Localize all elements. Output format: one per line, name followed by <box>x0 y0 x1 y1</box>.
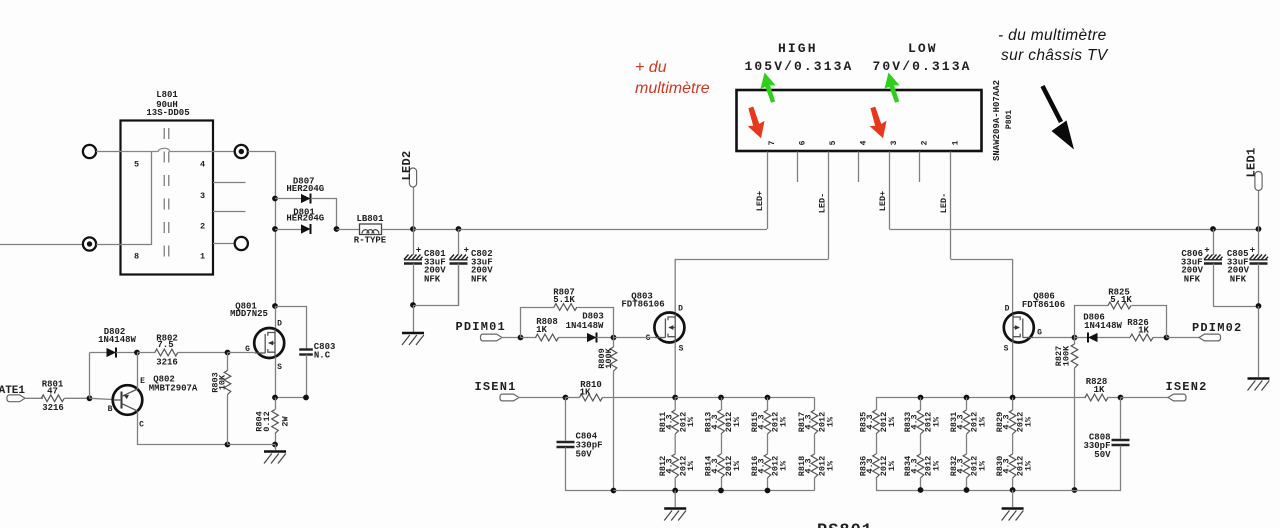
svg-text:1%: 1% <box>931 416 941 427</box>
node R803 bottom <box>225 442 231 448</box>
wire C808 branch <box>1120 398 1122 439</box>
ground right bank <box>1002 509 1024 521</box>
wire R811 column top <box>674 398 676 411</box>
node ISEN2/C808 <box>1118 395 1124 401</box>
svg-text:70V/0.313A: 70V/0.313A <box>873 59 972 74</box>
svg-text:47: 47 <box>47 387 58 397</box>
svg-text:NFK: NFK <box>1230 275 1247 285</box>
wire C803 bottom to source node <box>276 355 307 398</box>
wire PDIM01 to node <box>502 337 521 339</box>
wire D802 cathode to emitter node <box>116 352 137 354</box>
svg-text:+: + <box>464 246 469 256</box>
wire ground stub <box>275 445 277 451</box>
svg-text:G: G <box>1037 329 1042 338</box>
pin 4 stub <box>858 152 860 183</box>
wire pin1 corner to Q806 drain <box>951 260 1013 314</box>
resistor R835 <box>873 410 880 434</box>
svg-text:PS801: PS801 <box>817 522 873 528</box>
node LED2/C801 <box>410 226 416 232</box>
wire C801 bottom to C802 bottom <box>414 264 459 306</box>
wire R811-R812 mid <box>674 434 676 454</box>
svg-text:1K: 1K <box>580 388 591 398</box>
wire R814 column bottom <box>721 478 723 491</box>
node Q801 drain / C803 <box>272 303 278 309</box>
svg-text:4.3: 4.3 <box>1002 414 1012 429</box>
wire D807 anode <box>275 198 301 200</box>
wire Q802 collector down and right <box>138 412 228 445</box>
R825 loop wire left <box>1075 306 1109 338</box>
svg-text:FDT86106: FDT86106 <box>621 300 664 310</box>
resistor R802 <box>155 349 178 356</box>
svg-text:C: C <box>139 421 144 430</box>
svg-text:4.3: 4.3 <box>757 414 767 429</box>
resistor R825 <box>1108 302 1131 309</box>
svg-text:1K: 1K <box>536 325 547 335</box>
resistor R829 <box>1009 410 1016 434</box>
pin 3 stub <box>889 152 891 230</box>
wire R832 column bottom <box>966 478 968 490</box>
svg-text:3: 3 <box>200 191 205 201</box>
svg-text:B: B <box>108 405 113 414</box>
svg-text:NFK: NFK <box>1184 275 1201 285</box>
wire pin8 terminal to box <box>96 244 120 246</box>
svg-text:G: G <box>646 334 651 343</box>
wire node to R810 <box>566 397 580 399</box>
svg-text:LB801: LB801 <box>356 214 384 224</box>
node C805 bottom <box>1256 303 1262 309</box>
node R809 bottom <box>611 488 617 494</box>
resistor R830 <box>1009 454 1016 478</box>
R825 loop wire right <box>1132 306 1167 338</box>
resistor R836 <box>873 454 880 478</box>
pin2 stub <box>213 211 246 213</box>
svg-text:multimètre: multimètre <box>635 80 710 97</box>
wire R830 column bottom <box>1012 478 1014 490</box>
capacitor C804 <box>557 441 575 443</box>
ground under C801 <box>402 333 424 345</box>
svg-text:ISEN2: ISEN2 <box>1166 380 1208 394</box>
svg-text:4.3: 4.3 <box>664 414 674 429</box>
wire LB801 to LED2 node <box>382 229 414 231</box>
resistor R804 <box>272 410 279 434</box>
wire ISEN1 to C804 node <box>519 397 566 399</box>
wire emitter node to R802 <box>137 352 156 354</box>
node PDIM02/R825 <box>1164 335 1170 341</box>
node R801/base/D802 <box>87 395 93 401</box>
wire LED1 column to ground <box>1258 306 1260 377</box>
node R804 bottom <box>272 442 278 448</box>
wire C802 top to pin7 corner <box>459 229 768 231</box>
svg-text:100K: 100K <box>1061 345 1071 366</box>
svg-text:5.1K: 5.1K <box>553 295 575 305</box>
svg-text:MDD7N25: MDD7N25 <box>230 309 268 319</box>
svg-text:LED+: LED+ <box>755 191 765 211</box>
svg-text:1N4148W: 1N4148W <box>566 321 604 331</box>
transformer core dashed lines <box>163 128 165 268</box>
svg-text:0.12: 0.12 <box>262 411 272 431</box>
wire R833 column top <box>920 398 922 411</box>
svg-text:1%: 1% <box>732 416 742 427</box>
svg-text:3216: 3216 <box>156 358 178 368</box>
svg-text:5: 5 <box>134 160 139 170</box>
svg-text:P801: P801 <box>1005 110 1014 129</box>
resistor R810 <box>580 394 603 401</box>
svg-text:+: + <box>416 246 421 256</box>
svg-text:LED-: LED- <box>818 193 828 213</box>
connector PDIM02 pill (pointing left) <box>1199 334 1221 341</box>
svg-text:1K: 1K <box>1138 326 1149 336</box>
node C803 bottom <box>303 395 309 401</box>
wire ground stub left bank <box>674 491 676 508</box>
node bottom rail Q803 source column <box>672 488 678 494</box>
diode D807 <box>301 194 311 203</box>
green arrow HIGH <box>757 71 779 105</box>
svg-text:4.3: 4.3 <box>910 414 920 429</box>
terminal pin4 (filled) <box>235 145 248 158</box>
wire R836 column bottom <box>876 478 878 490</box>
svg-text:1%: 1% <box>887 416 897 427</box>
wire left edge to pin8 terminal <box>0 244 83 246</box>
svg-text:1%: 1% <box>686 416 696 427</box>
svg-text:3216: 3216 <box>42 403 64 413</box>
wire C804 bottom to bottom rail <box>566 448 614 491</box>
connector PDIM01 pill <box>481 334 503 341</box>
node R827 bottom <box>1072 487 1078 493</box>
resistor R832 <box>963 454 970 478</box>
node D803/R807/R809/gate <box>611 335 617 341</box>
wire R810 to source node <box>603 397 676 399</box>
resistor R812 <box>672 454 679 478</box>
terminal pin5 (open) <box>83 145 96 158</box>
svg-text:LED+: LED+ <box>878 191 888 211</box>
wire R809 to bottom rail <box>613 371 615 491</box>
R807 loop wire right <box>578 308 614 338</box>
svg-text:6: 6 <box>798 140 807 145</box>
connector ISEN1 pill <box>500 394 519 401</box>
wire R828 to ISEN2 node <box>1108 397 1121 399</box>
svg-text:3: 3 <box>890 140 899 145</box>
node D806/R825/R827/gate <box>1072 335 1078 341</box>
svg-text:4.3: 4.3 <box>804 414 814 429</box>
wire C803 branch top <box>276 307 307 349</box>
svg-text:+ du: + du <box>635 59 667 76</box>
svg-text:MMBT2907A: MMBT2907A <box>149 384 198 394</box>
pin 2 stub <box>919 152 921 183</box>
wire Q801 source down <box>275 357 277 398</box>
wire R831-R832 mid <box>966 434 968 454</box>
node top rail R831 <box>964 395 970 401</box>
svg-text:1%: 1% <box>825 460 835 471</box>
transformer winding wire pin5-pin4 <box>121 148 214 151</box>
diode D801 <box>301 224 311 233</box>
svg-text:4.3: 4.3 <box>710 458 720 473</box>
wire pin5 corner to Q803 drain <box>675 260 828 314</box>
wire C806 bottom to C805 column <box>1213 306 1259 308</box>
node bottom rail R832 <box>964 487 970 493</box>
ground under LED1 column <box>1248 379 1270 391</box>
connector LED2 pill <box>409 168 416 187</box>
capacitor C806 <box>1213 229 1215 255</box>
resistor R817 <box>811 410 818 434</box>
svg-text:1N4148W: 1N4148W <box>98 335 136 345</box>
svg-text:2: 2 <box>200 222 205 232</box>
wire R804 to ground node <box>275 434 277 445</box>
connector P801 box <box>737 90 982 151</box>
svg-text:- du multimètre: - du multimètre <box>998 27 1107 44</box>
wire R808 to D803 <box>559 337 588 339</box>
transformer winding wire pin8 riser <box>121 152 152 245</box>
svg-text:5: 5 <box>829 140 838 145</box>
ground left bank <box>664 509 686 521</box>
node Q803 source/sense <box>672 395 678 401</box>
node D807 anode <box>272 196 278 202</box>
wire C801 bottom to ground <box>413 305 415 332</box>
svg-text:1%: 1% <box>977 416 987 427</box>
capacitor C805 <box>1258 229 1260 255</box>
wire ground stub right bank <box>1012 490 1014 507</box>
wire R803 to collector wire <box>227 395 229 445</box>
capacitor C802 <box>458 229 460 255</box>
svg-text:4.3: 4.3 <box>865 458 875 473</box>
pin 1 stub <box>950 152 952 260</box>
wire drain node to Q801 <box>275 306 277 330</box>
resistor R816 <box>764 454 771 478</box>
resistor R815 <box>764 410 771 434</box>
wire gate node to Q801 gate <box>228 352 255 354</box>
wire R813-R814 mid <box>721 434 723 454</box>
resistor R834 <box>917 454 924 478</box>
wire LED1 pill to rail <box>1258 191 1260 230</box>
wire Q802 emitter up to node <box>137 353 139 390</box>
wire top rail left bank <box>675 397 814 399</box>
node top rail R813 <box>718 395 724 401</box>
wire R812 column bottom <box>674 478 676 491</box>
node bottom rail R834 <box>918 487 924 493</box>
wire R827 to bottom rail <box>1074 368 1076 490</box>
resistor R826 <box>1130 334 1153 341</box>
node R802/R803/gate <box>225 350 231 356</box>
svg-text:4.3: 4.3 <box>865 414 875 429</box>
wire R815-R816 mid <box>767 434 769 454</box>
svg-text:4.3: 4.3 <box>710 414 720 429</box>
resistor R814 <box>718 454 725 478</box>
svg-text:2W: 2W <box>280 416 290 427</box>
wire Q803 source down to sense node <box>674 342 676 398</box>
wire R833-R834 mid <box>920 434 922 454</box>
svg-text:1%: 1% <box>778 460 788 471</box>
svg-text:4: 4 <box>859 140 868 145</box>
svg-text:R-TYPE: R-TYPE <box>354 236 387 246</box>
resistor R828 <box>1085 394 1108 401</box>
node D802/emitter <box>134 350 140 356</box>
node C801 bottom <box>410 302 416 308</box>
node C802 top <box>456 226 462 232</box>
node C805/LED1 top <box>1256 226 1262 232</box>
wire base node to Q802 <box>90 398 113 399</box>
svg-text:PDIM02: PDIM02 <box>1192 321 1242 335</box>
wire R817 column top <box>814 398 816 411</box>
resistor R808 <box>536 334 559 341</box>
svg-text:4: 4 <box>200 160 205 170</box>
resistor R818 <box>811 454 818 478</box>
svg-text:8: 8 <box>134 252 139 262</box>
wire R801 to base node <box>64 397 89 399</box>
wire C808 bottom to bottom rail <box>1075 446 1121 491</box>
wire C804 branch <box>565 398 567 441</box>
node bottom rail R816 <box>765 488 771 494</box>
wire R803 branch <box>227 353 229 371</box>
wire gate node down to R809 <box>613 338 615 348</box>
svg-text:D803: D803 <box>582 312 604 322</box>
pin3 stub <box>213 182 246 184</box>
svg-text:LOW: LOW <box>908 41 938 56</box>
wire node to R808 <box>521 337 537 339</box>
diode D806 (pointing left) <box>1087 333 1089 343</box>
connector GATE1 pill <box>7 395 25 402</box>
connector LED1 pill <box>1255 172 1262 191</box>
svg-text:1%: 1% <box>778 416 788 427</box>
svg-text:1K: 1K <box>1094 385 1105 395</box>
svg-text:50V: 50V <box>576 450 593 460</box>
svg-text:LED2: LED2 <box>400 150 414 180</box>
svg-text:7: 7 <box>768 140 777 145</box>
wire bottom rail right bank <box>876 490 1075 492</box>
svg-text:13S-DD05: 13S-DD05 <box>146 108 189 118</box>
capacitor C803 <box>299 348 313 350</box>
svg-text:S: S <box>277 363 282 372</box>
transistor Q801 MOSFET <box>254 328 284 358</box>
black arrow to chassis <box>1043 86 1062 122</box>
wire D806 anode to R826 <box>1098 337 1131 339</box>
wire D803 cathode to gate node <box>597 337 614 339</box>
svg-text:S: S <box>1004 345 1009 354</box>
svg-text:4.3: 4.3 <box>664 458 674 473</box>
wire R834 column bottom <box>920 478 922 490</box>
wire pin5 to box <box>96 151 120 153</box>
red arrow pin3 <box>865 105 892 141</box>
resistor R827 <box>1071 344 1078 368</box>
resistor R831 <box>963 410 970 434</box>
wire diode node to LB801 <box>337 229 360 231</box>
wire gate node to D806 cathode <box>1075 337 1089 339</box>
svg-text:D: D <box>1005 305 1010 314</box>
transistor Q803 MOSFET <box>654 313 684 343</box>
svg-text:1%: 1% <box>887 460 897 471</box>
svg-text:1N4148W: 1N4148W <box>1084 321 1122 331</box>
svg-text:100K: 100K <box>604 347 614 368</box>
transistor Q806 MOSFET (mirrored) <box>1004 313 1034 343</box>
svg-text:50V: 50V <box>1094 450 1111 460</box>
capacitor C808 <box>1112 439 1130 441</box>
wire box pin1 to terminal <box>213 243 235 245</box>
svg-text:1%: 1% <box>732 460 742 471</box>
node Q801 source <box>272 395 278 401</box>
wire GATE1 to R801 <box>25 397 43 399</box>
svg-text:FDT86106: FDT86106 <box>1022 300 1065 310</box>
wire collector node to R804 node <box>228 444 276 446</box>
svg-text:10K: 10K <box>217 374 227 390</box>
svg-text:PDIM01: PDIM01 <box>456 320 506 334</box>
node top rail R815 <box>765 395 771 401</box>
svg-text:1: 1 <box>200 252 205 262</box>
node ISEN1/C804 <box>563 395 569 401</box>
wire gate node to Q803 gate <box>614 337 656 339</box>
R807 loop wire left <box>521 308 555 338</box>
svg-text:4.3: 4.3 <box>956 414 966 429</box>
wire main vertical from pin4 node down to Q801 drain node <box>275 152 277 307</box>
pin 5 stub <box>828 152 830 260</box>
svg-text:1%: 1% <box>686 460 696 471</box>
wire R831 column top <box>966 398 968 411</box>
svg-text:HER204G: HER204G <box>286 214 324 224</box>
wire R829 column top <box>1012 398 1014 411</box>
svg-text:HER204G: HER204G <box>286 184 324 194</box>
svg-text:LED1: LED1 <box>1245 147 1259 177</box>
node diode output <box>334 226 340 232</box>
svg-text:1: 1 <box>951 140 960 145</box>
svg-text:NFK: NFK <box>471 275 488 285</box>
wire pin3 corner to LED1 column <box>890 229 1259 231</box>
resistor R807 <box>554 304 577 311</box>
transformer L801 box <box>121 121 214 275</box>
svg-text:4.3: 4.3 <box>804 458 814 473</box>
svg-text:5.1K: 5.1K <box>1110 295 1132 305</box>
wire R802 to gate node <box>178 352 228 354</box>
resistor R803 <box>224 371 231 395</box>
wire riser to D802 <box>90 352 107 354</box>
node C806 top <box>1210 226 1216 232</box>
wire ISEN2 node to pill <box>1121 397 1169 399</box>
ground under R804 <box>264 452 286 464</box>
wire R813 column top <box>721 398 723 411</box>
svg-text:1%: 1% <box>931 460 941 471</box>
wire R835-R836 mid <box>876 434 878 454</box>
wire PDIM02 node to pill <box>1167 337 1200 339</box>
wire R817-R818 mid <box>814 434 816 454</box>
connector ISEN2 pill (pointing left) <box>1168 394 1186 401</box>
wire R816 column bottom <box>767 478 769 491</box>
node D801 anode <box>272 226 278 232</box>
wire source node to R804 <box>275 398 277 410</box>
svg-text:LED-: LED- <box>939 193 949 213</box>
terminal pin1 (open) <box>235 237 248 250</box>
wire R826 to PDIM02 node <box>1153 337 1167 339</box>
wire D801 anode <box>275 229 301 231</box>
svg-text:E: E <box>140 377 145 386</box>
wire ISEN2 rail <box>876 397 1086 399</box>
green arrow LOW <box>881 71 903 105</box>
pin 7 stub <box>767 152 769 230</box>
svg-text:SNAW209A-H07AA2: SNAW209A-H07AA2 <box>992 80 1002 161</box>
wire Q806 source down to sense node <box>1012 342 1014 398</box>
svg-text:+: + <box>1250 246 1255 256</box>
resistor R809 <box>610 347 617 371</box>
diode D803 <box>587 333 597 342</box>
wire D807 cathode down to D801 cathode node <box>311 199 337 230</box>
wire R818 column bottom <box>814 478 816 491</box>
wire R835 column top <box>876 398 878 411</box>
svg-text:N.C: N.C <box>314 351 331 361</box>
svg-text:4.3: 4.3 <box>910 458 920 473</box>
svg-text:sur châssis TV: sur châssis TV <box>1001 47 1109 64</box>
svg-text:NFK: NFK <box>424 275 441 285</box>
capacitor C801 <box>413 229 415 255</box>
svg-text:HIGH: HIGH <box>778 41 818 56</box>
svg-text:D: D <box>277 320 282 329</box>
resistor R811 <box>672 410 679 434</box>
svg-text:4.3: 4.3 <box>956 458 966 473</box>
node top rail R829 <box>1010 395 1016 401</box>
